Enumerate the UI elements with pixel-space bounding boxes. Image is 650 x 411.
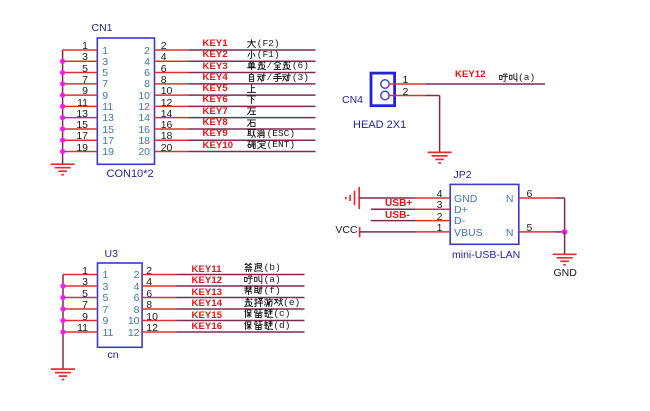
JP2 pin number 4	[425, 189, 443, 199]
U3 bus junction row 3	[60, 283, 65, 288]
U3 inside pin 6	[122, 293, 140, 303]
net label KEY8	[203, 118, 228, 128]
CN4 value label HEAD 2X1	[353, 120, 406, 130]
U3 pin number 9	[70, 312, 88, 322]
JP2 pin name GND	[454, 194, 477, 204]
CN4 pin 2	[389, 95, 425, 97]
CN4 pin number 1	[403, 75, 409, 85]
ground for U3 bus	[51, 368, 75, 370]
U3 pin 10	[142, 320, 176, 322]
net name text row 10	[247, 140, 295, 151]
CN1 bus junction row 17	[60, 138, 65, 143]
JP2 pin 3	[416, 208, 450, 210]
JP2 pin name N (pin 5)	[496, 228, 514, 238]
U3 inside pin 2	[122, 270, 140, 280]
net name text KEY12	[499, 73, 536, 84]
net label KEY6	[203, 95, 228, 105]
U3 pin 5	[63, 297, 98, 299]
earth ground symbol left of JP2 pin 4	[345, 197, 347, 200]
CN1 pin 6	[155, 72, 189, 74]
JP2 pin name D+	[454, 205, 468, 215]
CN1 pin number 17	[70, 131, 88, 141]
U3 pin 2	[142, 274, 176, 276]
wire net KEY10	[189, 151, 316, 153]
JP2 designator label	[454, 170, 472, 180]
CN1 pin 14	[155, 117, 189, 119]
CN1 pin number 20	[161, 143, 173, 153]
CN1 inside pin 3	[102, 57, 108, 67]
CN1 inside pin 13	[102, 113, 114, 123]
U3 pin number 2	[146, 266, 152, 276]
CN1 pin 5	[63, 72, 98, 74]
JP2 pin number 2	[425, 212, 443, 222]
net name text row 16	[244, 321, 290, 332]
U3 pin 3	[63, 285, 98, 287]
U3 left bus wire	[62, 275, 64, 369]
JP2 pin number 1	[425, 223, 443, 233]
CN4 pin 1	[389, 83, 425, 85]
U3 value label cn	[108, 350, 119, 360]
net label KEY12	[455, 70, 486, 80]
net label KEY3	[203, 62, 228, 72]
CN1 inside pin 12	[132, 102, 150, 112]
U3 pin number 12	[146, 323, 158, 333]
ground for CN1 bus	[51, 163, 75, 165]
net label KEY10	[203, 141, 234, 151]
wire VCC to JP2 pin 1	[360, 231, 416, 233]
CN1 pin 1	[63, 49, 98, 51]
CN1 pin number 6	[161, 64, 167, 74]
wire GND net vertical to ground	[564, 232, 566, 254]
net label KEY7	[203, 107, 228, 117]
U3 inside pin 10	[122, 316, 140, 326]
net name text row 3	[247, 61, 309, 72]
CN1 inside pin 8	[132, 79, 150, 89]
junction at GND net	[562, 229, 568, 235]
wire net KEY8	[189, 128, 316, 130]
CN1 inside pin 15	[102, 125, 114, 135]
CN1 bus junction row 13	[60, 115, 65, 120]
U3 inside pin 1	[103, 270, 109, 280]
CN1 pin number 10	[161, 86, 173, 96]
CN1 pin 20	[155, 151, 189, 153]
CN1 pin 10	[155, 94, 189, 96]
CN1 pin number 7	[70, 75, 88, 85]
net name text row 12	[244, 275, 281, 286]
CN1 pin number 11	[70, 98, 88, 108]
net label KEY14	[192, 299, 223, 309]
U3 pin 6	[142, 297, 176, 299]
U3 pin 12	[142, 331, 176, 333]
JP2 pin name D-	[454, 216, 465, 226]
U3 inside pin 12	[122, 328, 140, 338]
wire net KEY3	[189, 72, 316, 74]
U3 inside pin 11	[103, 328, 114, 338]
CN1 left bus wire	[62, 50, 64, 164]
CN1 bus junction row 3	[60, 59, 65, 64]
net label KEY16	[192, 322, 223, 332]
CN1 pin number 4	[161, 52, 167, 62]
wire from CN4 pin 2 vertical	[439, 96, 441, 153]
CN1 pin 2	[155, 49, 189, 51]
CN1 inside pin 2	[132, 46, 150, 56]
CN1 pin number 3	[70, 52, 88, 62]
U3 bus junction row 11	[60, 329, 65, 334]
wire net KEY1	[189, 49, 316, 51]
CN1 pin number 14	[161, 109, 173, 119]
CN1 pin 12	[155, 105, 189, 107]
U3 pin number 3	[70, 277, 88, 287]
CN1 bus junction row 7	[60, 81, 65, 86]
CN1 inside pin 7	[102, 79, 108, 89]
net name text row 4	[247, 73, 309, 84]
JP2 pin 5	[519, 231, 555, 233]
connector CN4 box	[371, 73, 395, 106]
net name text row 2	[247, 50, 280, 61]
JP2 value label mini-USB-LAN	[452, 250, 520, 260]
U3 inside pin 9	[103, 316, 109, 326]
wire net KEY2	[189, 60, 316, 62]
wire net KEY12	[176, 285, 304, 287]
wire net KEY5	[189, 94, 316, 96]
CN1 pin 16	[155, 128, 189, 130]
wire net KEY9	[189, 139, 316, 141]
CN1 inside pin 6	[132, 68, 150, 78]
net name text row 9	[247, 129, 295, 140]
CN1 inside pin 1	[102, 46, 108, 56]
connector U3 box	[98, 263, 143, 347]
U3 pin number 7	[70, 300, 88, 310]
wire net KEY12 from CN4 pin 1	[425, 83, 545, 85]
U3 designator label	[105, 249, 118, 259]
CN1 inside pin 10	[132, 91, 150, 101]
CN1 pin 13	[63, 117, 98, 119]
CN1 pin number 15	[70, 120, 88, 130]
net label USB-	[385, 211, 410, 221]
U3 pin number 11	[70, 323, 88, 333]
CN1 pin number 5	[70, 64, 88, 74]
CN1 inside pin 19	[102, 147, 114, 157]
U3 pin number 6	[146, 289, 152, 299]
U3 bus junction row 7	[60, 306, 65, 311]
net label KEY5	[203, 84, 228, 94]
net name text row 6	[247, 95, 257, 105]
net label KEY9	[203, 129, 228, 139]
CN1 pin 19	[63, 151, 98, 153]
CN1 pin number 1	[70, 41, 88, 51]
CN1 pin 3	[63, 60, 98, 62]
CN1 inside pin 17	[102, 136, 114, 146]
net label KEY2	[203, 50, 228, 60]
wire net KEY6	[189, 105, 316, 107]
U3 inside pin 8	[122, 305, 140, 315]
U3 bus junction row 5	[60, 295, 65, 300]
CN4 pad circle pin 1	[381, 80, 389, 88]
U3 inside pin 4	[122, 282, 140, 292]
net name text row 5	[247, 84, 257, 94]
U3 pin number 8	[146, 300, 152, 310]
wire net KEY13	[176, 297, 304, 299]
JP2 pin 4	[416, 197, 450, 199]
JP2 pin 6	[519, 197, 555, 199]
U3 pin 9	[63, 320, 98, 322]
CN4 pad circle pin 2	[381, 91, 389, 99]
U3 pin number 4	[146, 277, 152, 287]
JP2 pin 2	[416, 220, 450, 222]
U3 inside pin 7	[103, 305, 109, 315]
power port VCC bar	[359, 227, 361, 237]
U3 pin number 5	[70, 289, 88, 299]
wire net USB- to JP2 pin 2	[371, 220, 416, 222]
CN1 pin 8	[155, 83, 189, 85]
U3 inside pin 5	[103, 293, 109, 303]
CN1 pin 11	[63, 105, 98, 107]
CN1 pin 9	[63, 94, 98, 96]
net name text row 1	[247, 39, 280, 50]
net label KEY1	[203, 39, 228, 49]
net name text row 14	[244, 298, 300, 309]
U3 pin 8	[142, 308, 176, 310]
net name text row 8	[247, 118, 257, 128]
U3 pin 7	[63, 308, 98, 310]
CN1 pin number 12	[161, 98, 173, 108]
wire GND net vertical from pin 6	[564, 198, 566, 232]
CN1 pin number 16	[161, 120, 173, 130]
CN1 bus junction row 15	[60, 126, 65, 131]
CN1 bus junction row 9	[60, 93, 65, 98]
JP2 pin number 5	[527, 223, 533, 233]
U3 pin 1	[63, 274, 98, 276]
wire net KEY14	[176, 308, 304, 310]
net label KEY11	[192, 265, 222, 275]
CN1 inside pin 4	[132, 57, 150, 67]
JP2 pin name N (pin 6)	[496, 194, 514, 204]
CN1 pin number 2	[161, 41, 167, 51]
net name text row 13	[244, 286, 281, 297]
CN1 bus junction row 11	[60, 104, 65, 109]
wire from JP2 pin 6 horizontal	[555, 197, 565, 199]
JP2 pin name VBUS	[454, 228, 483, 238]
CN1 pin 7	[63, 83, 98, 85]
CN1 pin 15	[63, 128, 98, 130]
net name text row 11	[244, 263, 281, 274]
CN1 inside pin 11	[102, 102, 113, 112]
CN1 pin number 8	[161, 75, 167, 85]
wire net KEY15	[176, 320, 304, 322]
CN4 designator label	[342, 95, 363, 105]
wire net KEY4	[189, 83, 316, 85]
GND net label	[554, 268, 577, 278]
net label KEY4	[203, 73, 228, 83]
JP2 pin 1	[416, 231, 450, 233]
CN1 value label CON10*2	[107, 169, 154, 179]
net label USB+	[385, 199, 412, 209]
CN1 inside pin 20	[132, 147, 150, 157]
CN1 pin number 13	[70, 109, 88, 119]
U3 pin 11	[63, 331, 98, 333]
U3 bus junction row 9	[60, 318, 65, 323]
CN1 pin number 18	[161, 131, 173, 141]
net label KEY13	[192, 288, 223, 298]
CN1 bus junction row 19	[60, 149, 65, 154]
CN1 inside pin 18	[132, 136, 150, 146]
U3 inside pin 3	[103, 282, 109, 292]
net name text row 7	[247, 106, 257, 116]
CN4 pin number 2	[403, 87, 409, 97]
CN1 bus junction row 5	[60, 70, 65, 75]
U3 pin number 10	[146, 312, 158, 322]
CN1 pin 4	[155, 60, 189, 62]
CN1 pin number 9	[70, 86, 88, 96]
net label KEY15	[192, 311, 223, 321]
CN1 inside pin 14	[132, 113, 150, 123]
ground below CN4	[428, 151, 452, 153]
U3 pin number 1	[70, 266, 88, 276]
connector JP2 box	[450, 184, 519, 244]
net name text row 15	[244, 309, 290, 320]
CN1 designator label	[92, 23, 113, 33]
CN1 pin 18	[155, 139, 189, 141]
CN1 inside pin 16	[132, 125, 150, 135]
U3 pin 4	[142, 285, 176, 287]
wire from JP2 pin 5 horizontal	[555, 231, 565, 233]
wire from CN4 pin 2 horizontal	[425, 95, 439, 97]
wire net KEY16	[176, 331, 304, 333]
wire earth to JP2 pin 4	[359, 197, 416, 199]
CN1 inside pin 9	[102, 91, 108, 101]
wire net KEY11	[176, 274, 304, 276]
power port VCC label	[332, 225, 358, 235]
JP2 pin number 6	[527, 189, 533, 199]
ground below JP2	[553, 253, 577, 255]
wire net USB+ to JP2 pin 3	[371, 208, 416, 210]
wire net KEY7	[189, 117, 316, 119]
JP2 pin number 3	[425, 200, 443, 210]
net label KEY12	[192, 276, 223, 286]
CN1 pin 17	[63, 139, 98, 141]
connector CN1 box	[97, 38, 154, 164]
CN1 pin number 19	[70, 143, 88, 153]
CN1 inside pin 5	[102, 68, 108, 78]
